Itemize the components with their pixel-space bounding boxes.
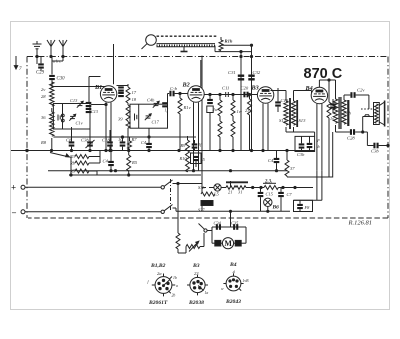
capacitor C28 xyxy=(336,125,364,141)
potentiometer with arrow xyxy=(186,233,204,253)
svg-text:C7: C7 xyxy=(287,192,293,197)
capacitor 1C box2 xyxy=(135,104,139,128)
dial scale bar top xyxy=(157,35,219,37)
wire drop x=202 xyxy=(201,56,203,184)
capacitor C4 under box2 xyxy=(141,128,152,151)
trimmer C4b box2 xyxy=(147,98,169,113)
svg-text:21: 21 xyxy=(228,190,232,195)
ground symbol xyxy=(33,41,42,64)
svg-text:R1h: R1h xyxy=(225,39,233,44)
capacitor C19 xyxy=(275,88,289,112)
svg-text:B1,B2: B1,B2 xyxy=(150,263,166,269)
capacitor C11 xyxy=(222,86,229,98)
svg-text:36: 36 xyxy=(41,115,46,120)
wire R1h upper rail xyxy=(221,44,253,46)
svg-text:C3b: C3b xyxy=(81,138,89,143)
svg-text:C-b: C-b xyxy=(170,86,178,91)
svg-text:b: b xyxy=(318,144,320,149)
resistor R3 xyxy=(69,151,100,164)
motor box xyxy=(212,227,246,243)
svg-text:37: 37 xyxy=(290,166,295,171)
svg-text:B3: B3 xyxy=(192,263,200,269)
wire aerial to C30 xyxy=(52,57,63,75)
svg-text:C2v: C2v xyxy=(357,88,365,93)
switch gang link xyxy=(170,179,172,210)
svg-text:C4: C4 xyxy=(103,159,109,164)
wire B2 anode top xyxy=(200,60,202,87)
capacitor C1s xyxy=(330,99,336,121)
svg-text:C32: C32 xyxy=(253,70,261,75)
mains filter box xyxy=(294,200,313,211)
svg-text:C13: C13 xyxy=(91,109,98,114)
resistor R1h xyxy=(219,39,233,51)
B plus feed L-wire 3 xyxy=(287,132,333,177)
label 23 xyxy=(263,180,276,185)
trimmer capacitor C3b xyxy=(81,127,95,151)
svg-text:17: 17 xyxy=(132,90,137,95)
speaker plug solid link xyxy=(363,115,375,132)
resistor Rb xyxy=(69,157,100,177)
svg-text:C35: C35 xyxy=(231,221,239,226)
wire B4 pins xyxy=(317,104,322,171)
svg-text:C29: C29 xyxy=(36,71,45,76)
svg-text:p: p xyxy=(317,137,320,142)
trimmer C1v xyxy=(69,114,82,125)
antenna symbol 2 xyxy=(59,40,67,61)
AVC bus wire xyxy=(53,136,196,138)
svg-text:R3: R3 xyxy=(69,154,76,159)
wire B2 to B3 grid line xyxy=(204,93,257,95)
minus terminal xyxy=(11,208,164,217)
svg-text:C15: C15 xyxy=(266,192,274,197)
schematic dash-dot border right xyxy=(387,57,389,219)
switch blade minus xyxy=(164,205,172,211)
aerial coil S2 lower winding xyxy=(41,108,54,151)
heater winding coil xyxy=(264,186,302,190)
resistor 21 xyxy=(221,186,236,195)
svg-text:L5: L5 xyxy=(213,192,220,197)
svg-text:C8: C8 xyxy=(66,138,72,143)
speaker plug dashed link xyxy=(361,95,375,109)
wire drop x=251.5 xyxy=(251,45,253,150)
dial ground tick xyxy=(181,47,188,52)
output transformer S14 primary xyxy=(333,99,337,123)
capacitor C31 xyxy=(228,70,244,81)
tuning box 1 xyxy=(53,104,90,130)
svg-text:B2038: B2038 xyxy=(188,300,204,306)
dial scale bar hatched band xyxy=(157,44,216,47)
svg-text:B4: B4 xyxy=(305,85,313,92)
svg-text:2a: 2a xyxy=(157,271,162,276)
socket B3 base diagram xyxy=(187,275,208,296)
capacitor 1C xyxy=(118,137,125,151)
svg-text:B1: B1 xyxy=(94,84,102,91)
resistor R9 cathode chain xyxy=(180,140,190,156)
box1 inner divider xyxy=(62,104,64,130)
svg-text:R5: R5 xyxy=(131,160,138,165)
svg-text:B4: B4 xyxy=(229,262,237,268)
antenna symbol 1 xyxy=(47,40,55,57)
svg-text:C11: C11 xyxy=(222,86,229,91)
svg-text:M: M xyxy=(224,239,232,248)
IF transformer core xyxy=(290,98,297,129)
wire box1 right to bus xyxy=(89,129,91,151)
transformer winding S3b xyxy=(198,184,215,197)
capacitor C8 grid B2 xyxy=(169,86,188,96)
svg-text:R.126.81: R.126.81 xyxy=(348,220,372,227)
svg-text:S13: S13 xyxy=(299,118,307,123)
resistor 1w xyxy=(231,95,243,151)
capacitor box C6 under B4 xyxy=(295,136,320,157)
svg-text:R8: R8 xyxy=(40,140,47,145)
schematic dash-dot border left xyxy=(26,57,28,219)
tube B1 xyxy=(94,84,117,102)
svg-text:B2061T: B2061T xyxy=(148,300,168,306)
wire box1 to B1 pin xyxy=(91,103,107,105)
resistor bias divider vertical xyxy=(176,233,186,253)
lower return bus xyxy=(69,174,201,176)
wire box1 grid riser xyxy=(89,77,101,104)
svg-text:39: 39 xyxy=(118,117,123,122)
core bar above resistors xyxy=(226,181,248,183)
svg-text:C3b: C3b xyxy=(371,149,379,154)
capacitor C35 xyxy=(231,221,239,230)
resistor 39 xyxy=(118,105,130,151)
resistor R7 xyxy=(128,137,138,151)
wire B1 pins xyxy=(105,102,112,151)
AVC arrow xyxy=(50,153,70,158)
wire B2 pins xyxy=(194,102,199,171)
svg-text:+: + xyxy=(11,183,16,193)
svg-text:1vB: 1vB xyxy=(243,279,250,283)
output transformer core xyxy=(339,97,341,129)
output transformer secondary xyxy=(342,100,352,124)
wire box2 to grid cap xyxy=(168,94,170,105)
wire IF secondary to B4 grid xyxy=(294,91,312,102)
svg-text:C13: C13 xyxy=(70,98,78,103)
svg-text:C4: C4 xyxy=(268,158,274,163)
wire switch to feed column xyxy=(173,182,203,233)
aerial coil S1 upper winding xyxy=(41,82,54,106)
resistor 2w xyxy=(213,95,223,151)
resistor R9 xyxy=(245,93,252,150)
trimmer C13 pair xyxy=(70,98,98,114)
resistor 17/18 xyxy=(126,84,137,105)
capacitor C29 xyxy=(36,57,45,76)
capacitor 1f bypass xyxy=(192,140,202,151)
capacitor C7 xyxy=(278,188,292,212)
IF transformer S13 secondary xyxy=(291,101,306,125)
capacitor C10 xyxy=(241,86,249,98)
svg-text:C34: C34 xyxy=(214,221,222,226)
capacitor C9 below grid line xyxy=(207,93,213,150)
svg-text:C3b: C3b xyxy=(297,152,305,157)
svg-text:C4b: C4b xyxy=(147,98,155,103)
svg-text:C28: C28 xyxy=(347,136,355,141)
trimmer C17 xyxy=(145,114,160,125)
svg-text:2w: 2w xyxy=(213,107,219,112)
output transformer outer core bar xyxy=(347,100,349,126)
capacitor C-c screen bypass xyxy=(118,86,124,97)
svg-text:C4: C4 xyxy=(141,140,147,145)
socket B4 base diagram xyxy=(221,273,249,291)
svg-text:B6: B6 xyxy=(272,205,280,211)
wire IF bottoms xyxy=(286,127,315,136)
svg-text:R1v: R1v xyxy=(183,105,192,110)
svg-text:C1v: C1v xyxy=(76,121,83,126)
wire bar to R1h xyxy=(215,37,221,52)
svg-text:2b: 2b xyxy=(172,294,176,298)
pilot lamp L5 xyxy=(202,184,221,197)
mains aerial input arrow xyxy=(14,56,22,72)
tube B4 xyxy=(305,85,328,104)
switch blade plus xyxy=(164,180,172,186)
grid wire coil to B1 xyxy=(52,86,106,88)
capacitor C4b mid xyxy=(268,151,279,171)
svg-text:B2043: B2043 xyxy=(225,299,241,305)
motor switch xyxy=(199,224,213,233)
capacitor C8 cathode xyxy=(66,127,74,151)
tuning dial xyxy=(142,35,157,49)
resistor R7 mid xyxy=(285,149,295,177)
wire R1h lower rail xyxy=(215,51,252,53)
svg-text:31: 31 xyxy=(238,190,242,195)
wire B1 anode top xyxy=(114,44,129,86)
svg-text:F8: F8 xyxy=(304,205,311,210)
svg-text:R5: R5 xyxy=(69,169,76,174)
wire B3 pins xyxy=(263,103,268,150)
padding capacitor C3 xyxy=(58,114,64,122)
svg-text:18: 18 xyxy=(132,97,137,102)
svg-text:R7: R7 xyxy=(131,137,138,142)
resistor 31b xyxy=(327,80,331,177)
node dots on aerial line xyxy=(36,55,64,57)
schematic dash-dot border top xyxy=(27,56,388,58)
schematic dash-dot border bottom xyxy=(28,217,388,219)
decoupling bus xyxy=(48,170,287,172)
B plus feed L-wire 2 xyxy=(321,171,323,201)
svg-text:1C: 1C xyxy=(118,137,124,142)
wire B3 plate to IF transformer xyxy=(271,91,287,102)
wire heater rail to filter xyxy=(302,187,313,189)
wire B4 anode to output transformer xyxy=(319,79,335,99)
wire minus rail to transformer xyxy=(173,208,291,211)
border crossing dots xyxy=(240,55,253,57)
plus terminal xyxy=(11,183,164,193)
capacitor C36 xyxy=(363,132,389,154)
motor M xyxy=(215,238,241,249)
svg-text:a: a xyxy=(176,284,178,288)
resistor 31 xyxy=(236,186,264,195)
resistor R2 xyxy=(127,151,138,177)
svg-text:C1b: C1b xyxy=(102,138,110,143)
capacitor C26 xyxy=(344,88,369,101)
loudspeaker xyxy=(374,101,385,127)
capacitor C15 xyxy=(258,188,274,212)
capacitor C30 xyxy=(49,75,65,88)
B plus feed L-wire 1 xyxy=(316,171,318,201)
resistor R5 xyxy=(69,169,97,176)
svg-text:S12: S12 xyxy=(279,118,287,123)
capacitor C5 boxed xyxy=(191,153,206,167)
resistor R1v xyxy=(178,92,192,150)
tube B2 xyxy=(182,82,205,103)
capacitor C32 xyxy=(248,70,261,81)
tube B3 xyxy=(251,85,274,104)
capacitor C34 xyxy=(214,221,222,230)
capacitor C16b xyxy=(102,130,113,151)
svg-text:23: 23 xyxy=(194,271,199,276)
socket B1,B2 base diagram xyxy=(148,274,179,298)
svg-text:B2: B2 xyxy=(182,82,190,89)
wire drop x=241 xyxy=(240,52,242,151)
svg-text:C30: C30 xyxy=(57,77,66,82)
tuning box 2 xyxy=(130,104,168,128)
transformer winding S32 hatched xyxy=(198,201,213,213)
svg-text:1b: 1b xyxy=(173,276,177,280)
svg-text:B3: B3 xyxy=(251,85,259,92)
barretter B6 xyxy=(264,198,279,212)
svg-text:C31: C31 xyxy=(228,70,236,75)
svg-text:1w: 1w xyxy=(237,109,243,114)
svg-text:28: 28 xyxy=(41,94,46,99)
capacitor C4 below bus xyxy=(103,151,114,172)
motor feed drop xyxy=(229,181,231,227)
svg-text:1a: 1a xyxy=(205,291,209,295)
chassis bus xyxy=(11,149,315,151)
resistor R10 cathode chain xyxy=(179,136,190,172)
svg-text:C20: C20 xyxy=(241,86,249,91)
svg-text:Rb: Rb xyxy=(69,161,76,166)
svg-text:C17: C17 xyxy=(152,120,160,125)
IF transformer S12 primary xyxy=(279,101,288,125)
